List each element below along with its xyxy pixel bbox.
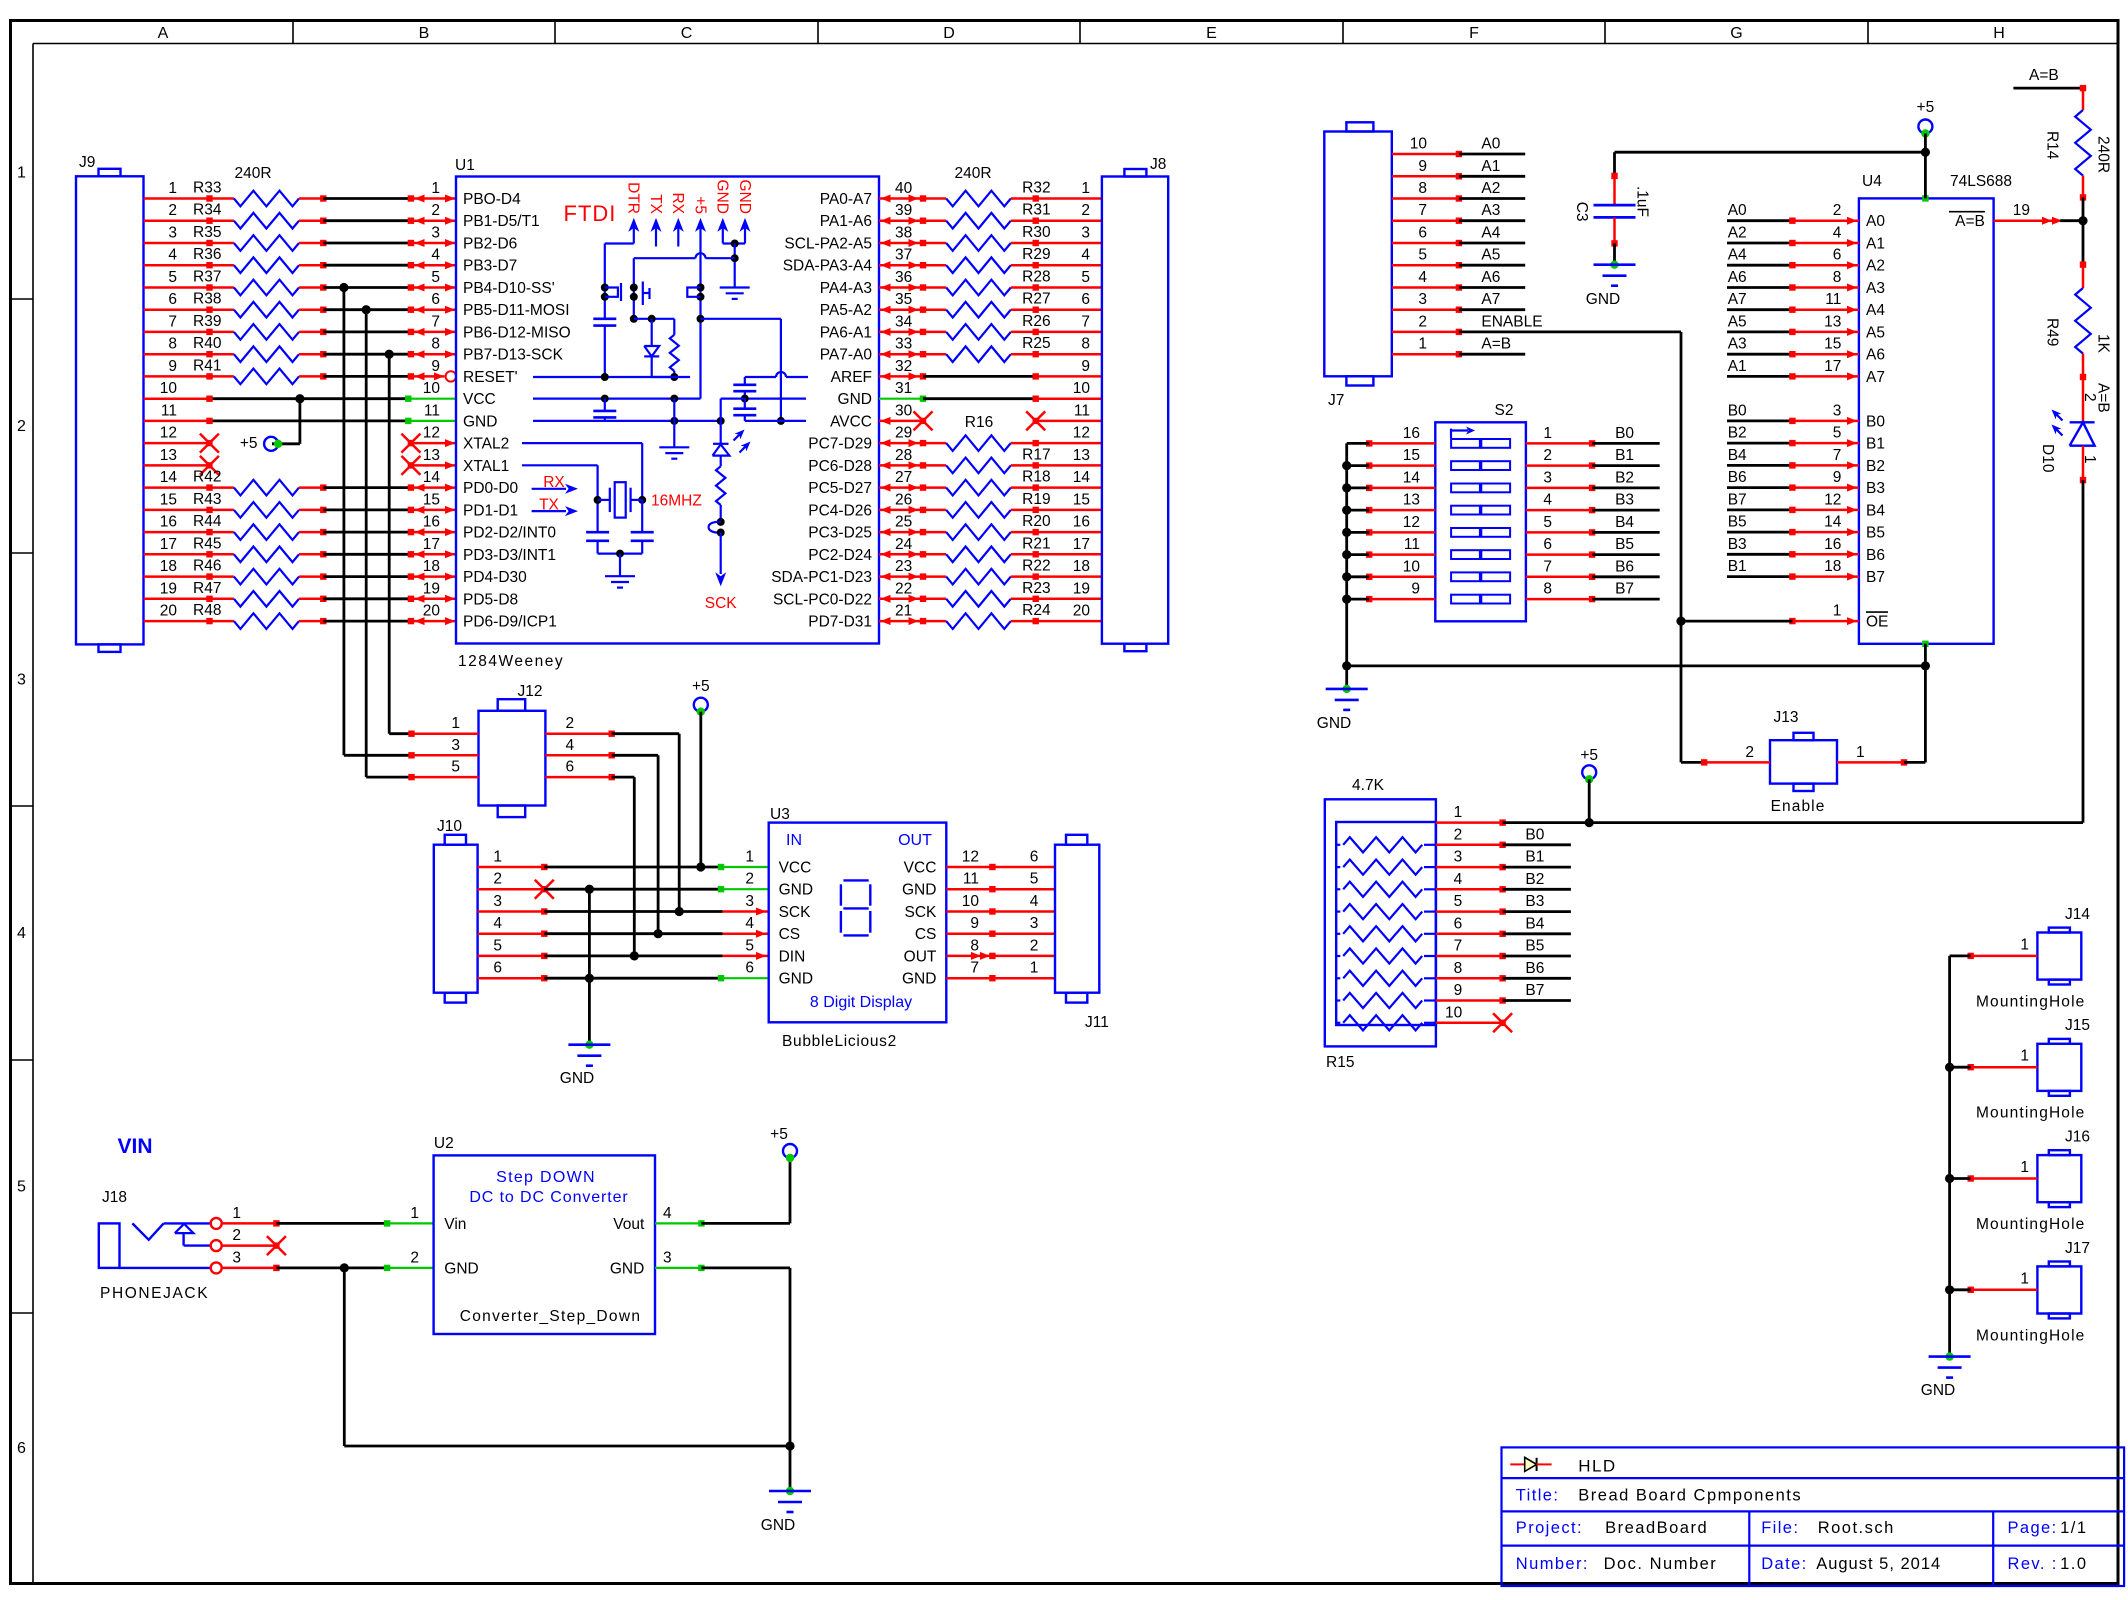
svg-text:17: 17 <box>1073 536 1090 553</box>
capacitor (AREF) <box>733 385 756 399</box>
U1 pin 22 number <box>895 580 912 597</box>
svg-text:Date:: Date: <box>1761 1555 1807 1573</box>
svg-text:R19: R19 <box>1022 491 1050 508</box>
wire <box>1727 486 1792 489</box>
svg-text:8: 8 <box>970 937 979 954</box>
wire <box>344 288 412 756</box>
R15 pin 6 number <box>1454 915 1463 932</box>
svg-text:7: 7 <box>1833 447 1842 464</box>
svg-text:11: 11 <box>963 871 979 888</box>
svg-text:RX: RX <box>669 192 686 214</box>
U4 pin 9 stub <box>1789 484 1859 492</box>
svg-text:J14: J14 <box>2065 906 2090 923</box>
svg-text:BreadBoard: BreadBoard <box>1605 1519 1708 1537</box>
svg-text:22: 22 <box>895 580 912 597</box>
arrow +5 <box>695 218 706 232</box>
svg-text:1: 1 <box>1454 804 1463 821</box>
U1 pin 6 stub <box>408 306 456 314</box>
U3 pin 11 number <box>963 871 979 888</box>
U3 pin 1 stub (green) <box>718 864 769 870</box>
svg-text:A2: A2 <box>1481 180 1500 197</box>
connector J7 <box>1324 122 1392 409</box>
svg-text:R42: R42 <box>193 469 221 486</box>
svg-text:15: 15 <box>423 491 440 508</box>
svg-text:1: 1 <box>493 849 502 866</box>
value Doc. Number <box>1604 1555 1718 1573</box>
svg-text:17: 17 <box>160 536 177 553</box>
svg-text:3: 3 <box>1543 469 1552 486</box>
no-connect X <box>200 456 219 475</box>
U1 pin 1 number <box>431 180 440 197</box>
svg-text:A=B: A=B <box>2029 67 2059 84</box>
J10 pin 1 stub <box>478 864 548 870</box>
wire +5 to U3 VCC <box>699 712 702 867</box>
wire VCC net <box>533 395 701 403</box>
J9 pin 12 number <box>160 425 177 442</box>
svg-text:U3: U3 <box>770 806 790 823</box>
svg-text:26: 26 <box>895 491 912 508</box>
J11 pin 1 number <box>1030 960 1039 977</box>
J7 pin 1 number <box>1418 336 1427 353</box>
svg-text:File:: File: <box>1761 1519 1799 1537</box>
U1 pin 20 stub <box>408 617 456 625</box>
U4 pin 17 number <box>1824 358 1841 375</box>
svg-text:6: 6 <box>1030 849 1039 866</box>
resistor R26 <box>923 313 1102 340</box>
wire <box>1503 910 1571 913</box>
wire <box>323 575 411 578</box>
value label 240R (left resistor bank) <box>234 165 271 182</box>
resistor R21 <box>923 535 1102 562</box>
svg-text:R41: R41 <box>193 357 221 374</box>
svg-text:PHONEJACK: PHONEJACK <box>100 1285 209 1302</box>
resistor R19 <box>923 491 1102 518</box>
net label B4 <box>1728 447 1747 464</box>
svg-text:Doc. Number: Doc. Number <box>1604 1555 1718 1573</box>
svg-text:DIN: DIN <box>779 948 806 965</box>
svg-text:11: 11 <box>424 402 440 419</box>
svg-text:1: 1 <box>431 180 440 197</box>
junction <box>1342 595 1351 604</box>
J13 pin 2 number <box>1745 744 1754 761</box>
wire J13.1 to U4 gnd rail <box>1904 761 1925 764</box>
resistor R41 <box>144 357 327 384</box>
U1 pin 28 stub <box>879 461 926 469</box>
svg-text:4: 4 <box>1081 247 1090 264</box>
no-connect X <box>401 456 420 475</box>
U1 pin 12 stub <box>411 439 456 447</box>
wire <box>1503 977 1571 980</box>
U1 pin 14 number <box>423 469 441 486</box>
svg-text:12: 12 <box>160 425 177 442</box>
J8 pin 7 number <box>1081 313 1090 330</box>
svg-text:August 5, 2014: August 5, 2014 <box>1816 1555 1941 1573</box>
R15 pin 6 stub <box>1436 931 1506 937</box>
svg-text:R26: R26 <box>1022 313 1050 330</box>
svg-text:J13: J13 <box>1774 709 1799 726</box>
svg-text:B0: B0 <box>1615 425 1634 442</box>
U2 pin 2 number <box>410 1249 419 1266</box>
svg-text:39: 39 <box>895 202 912 219</box>
capacitor (AVCC) <box>733 399 756 421</box>
svg-text:SCK: SCK <box>779 904 812 921</box>
J9 pin 3 number <box>168 225 177 242</box>
svg-text:6: 6 <box>745 960 754 977</box>
svg-text:18: 18 <box>423 558 440 575</box>
wire J12.4 to U3 CS <box>612 755 658 933</box>
wire <box>1459 286 1525 289</box>
svg-text:R27: R27 <box>1022 291 1050 308</box>
connector J12 <box>479 683 546 817</box>
svg-text:+5: +5 <box>691 196 708 214</box>
svg-text:7: 7 <box>1418 202 1427 219</box>
svg-text:16: 16 <box>1073 514 1090 531</box>
J10 pin 2 number <box>493 871 502 888</box>
IC U2 converter body <box>434 1135 655 1334</box>
svg-text:PD7-D31: PD7-D31 <box>808 614 872 631</box>
U1 pin 24 stub <box>879 550 926 558</box>
junction <box>362 305 371 314</box>
S2 pin 13 stub <box>1366 507 1435 513</box>
capacitor (DTR series) <box>593 319 616 377</box>
J12 pin 4 number <box>566 737 575 754</box>
J9 pin 18 number <box>160 558 177 575</box>
svg-text:R16: R16 <box>965 414 993 431</box>
svg-text:R37: R37 <box>193 269 221 286</box>
svg-text:PB1-D5/T1: PB1-D5/T1 <box>463 213 540 230</box>
svg-text:6: 6 <box>1081 291 1090 308</box>
svg-text:PB6-D12-MISO: PB6-D12-MISO <box>463 324 571 341</box>
U1 left pin labels <box>463 191 571 631</box>
svg-text:5: 5 <box>1454 893 1463 910</box>
S2 pin 11 stub <box>1366 551 1435 557</box>
wire <box>366 310 411 777</box>
svg-text:+5: +5 <box>770 1126 788 1143</box>
J10 pin 5 number <box>493 937 502 954</box>
wire DTR shaft <box>605 227 634 319</box>
J11 pin 6 number <box>1030 849 1039 866</box>
svg-text:18: 18 <box>160 558 177 575</box>
J18 pin 1 stub <box>222 1220 280 1226</box>
svg-text:23: 23 <box>895 558 912 575</box>
svg-text:PA4-A3: PA4-A3 <box>820 280 872 297</box>
svg-text:B2: B2 <box>1615 469 1634 486</box>
wire <box>144 418 409 424</box>
svg-text:B3: B3 <box>1525 893 1544 910</box>
svg-text:3: 3 <box>1030 915 1039 932</box>
wire <box>1592 575 1660 578</box>
wire <box>1459 308 1525 311</box>
ground (FTDI) <box>720 288 750 299</box>
power +5 (U2) <box>770 1126 797 1162</box>
net label B6 <box>1728 469 1747 486</box>
wire <box>1347 486 1370 489</box>
S2 element 8 <box>1451 595 1510 604</box>
J12 pin 4 stub <box>545 752 615 758</box>
U4 pin 8 number <box>1833 269 1842 286</box>
net label B3 <box>1615 492 1634 509</box>
svg-text:8: 8 <box>431 336 440 353</box>
svg-text:Bread Board Cpmponents: Bread Board Cpmponents <box>1578 1487 1802 1505</box>
U4 pin 1 number <box>1833 603 1842 620</box>
svg-text:3: 3 <box>232 1249 241 1266</box>
svg-text:A4: A4 <box>1481 225 1500 242</box>
svg-text:13: 13 <box>423 447 440 464</box>
U1 pin 36 number <box>895 269 912 286</box>
svg-text:R33: R33 <box>193 180 221 197</box>
svg-text:SCL-PA2-A5: SCL-PA2-A5 <box>784 236 872 253</box>
connector J9 <box>76 154 144 652</box>
ground (S2) <box>1317 685 1368 732</box>
svg-text:B7: B7 <box>1728 491 1747 508</box>
svg-text:5: 5 <box>17 1179 26 1196</box>
arrow TX <box>651 218 662 232</box>
wire <box>1347 509 1370 512</box>
J8 pin 19 number <box>1073 580 1090 597</box>
svg-text:SDA-PC1-D23: SDA-PC1-D23 <box>771 569 872 586</box>
transistor Q2 <box>687 284 704 301</box>
U1 pin 4 stub <box>408 261 456 269</box>
resistor R23 <box>923 580 1102 607</box>
svg-text:35: 35 <box>895 291 912 308</box>
U1 pin 25 stub <box>879 528 926 536</box>
svg-text:J12: J12 <box>518 683 543 700</box>
wire R15.1 to +5 <box>1503 818 1594 827</box>
svg-text:2: 2 <box>1543 447 1552 464</box>
svg-text:PA6-A1: PA6-A1 <box>820 324 872 341</box>
S2 pin 2 stub <box>1526 462 1595 468</box>
wire RESET net <box>533 373 690 381</box>
svg-text:MountingHole: MountingHole <box>1976 1327 2085 1344</box>
svg-text:A7: A7 <box>1728 291 1747 308</box>
svg-text:TX: TX <box>647 194 664 214</box>
svg-text:1: 1 <box>1856 744 1865 761</box>
resistor R49 1K <box>2044 261 2112 380</box>
svg-text:A6: A6 <box>1728 269 1747 286</box>
wire <box>1727 575 1792 578</box>
svg-text:1: 1 <box>1833 603 1842 620</box>
net label B2 <box>1728 425 1747 442</box>
U4 pin 18 stub <box>1789 573 1859 581</box>
wire <box>1727 353 1792 356</box>
svg-text:8: 8 <box>1543 581 1552 598</box>
svg-text:GND: GND <box>902 971 936 988</box>
J12 pin 1 number <box>451 715 460 732</box>
J7 pin 4 stub <box>1392 284 1462 290</box>
wire <box>323 597 411 600</box>
net label B5 <box>1525 938 1544 955</box>
U1 pin 39 stub <box>879 217 926 225</box>
svg-text:4: 4 <box>17 925 26 942</box>
net label A2 <box>1481 180 1500 197</box>
U1 pin 34 number <box>895 313 913 330</box>
connector J18 PHONEJACK <box>99 1189 211 1302</box>
U4 pin 9 number <box>1833 469 1842 486</box>
resistor R47 <box>144 580 327 607</box>
no-connect X (J10 pin2) <box>535 880 554 899</box>
svg-text:R15: R15 <box>1326 1054 1354 1071</box>
svg-text:GND: GND <box>779 882 813 899</box>
switch S2 body <box>1435 402 1526 621</box>
svg-text:A0: A0 <box>1728 202 1747 219</box>
svg-text:B4: B4 <box>1525 915 1544 932</box>
wire <box>1592 464 1660 467</box>
junction <box>1945 1285 1954 1294</box>
LED D10 <box>2039 377 2095 483</box>
svg-text:5: 5 <box>1543 514 1552 531</box>
resistor R22 <box>923 558 1102 585</box>
wire RX shaft <box>677 227 679 247</box>
resistor R34 <box>144 202 327 229</box>
svg-text:R38: R38 <box>193 291 221 308</box>
wire <box>1727 464 1792 467</box>
svg-text:4: 4 <box>1543 492 1552 509</box>
svg-text:3: 3 <box>17 672 26 689</box>
J11 pin 5 number <box>1030 871 1039 888</box>
arrow GND <box>717 218 728 232</box>
J8 pin 1 number <box>1081 180 1090 197</box>
R15 pin 7 number <box>1454 938 1463 955</box>
svg-text:7: 7 <box>1081 313 1090 330</box>
svg-text:R18: R18 <box>1022 469 1050 486</box>
svg-text:+5: +5 <box>1580 747 1598 764</box>
svg-text:B2: B2 <box>1525 871 1544 888</box>
svg-text:B5: B5 <box>1615 536 1634 553</box>
J8 pin 4 number <box>1081 247 1090 264</box>
J7 pin 6 stub <box>1392 240 1462 246</box>
svg-text:15: 15 <box>160 491 177 508</box>
J12 pin 3 stub <box>408 752 478 758</box>
svg-text:10: 10 <box>1403 558 1421 575</box>
R15 element 8 <box>1336 971 1436 986</box>
arrow RX <box>673 218 684 232</box>
transistor Q1 (reset FET) <box>601 283 621 301</box>
wire <box>144 396 409 402</box>
svg-text:11: 11 <box>1404 536 1420 553</box>
wire to J8 <box>1033 373 1102 379</box>
svg-text:XTAL2: XTAL2 <box>463 436 509 453</box>
U4 pin 1 (OE) stub <box>1789 617 1859 625</box>
J7 pin 10 number <box>1410 136 1428 153</box>
J9 pin 13 number <box>160 447 177 464</box>
svg-text:J10: J10 <box>437 818 462 835</box>
J8 pin 20 number <box>1073 603 1091 620</box>
R15 element 2 <box>1336 837 1436 852</box>
R15 pin 5 number <box>1454 893 1463 910</box>
J9 pin 6 number <box>168 291 177 308</box>
IC U1 1284Weeney body <box>455 157 879 670</box>
power +5 <box>240 435 282 452</box>
mounting hole J15 <box>1976 1017 2090 1122</box>
U1 pin 37 stub <box>879 261 926 269</box>
S2 pin 14 number <box>1403 469 1421 486</box>
svg-text:J15: J15 <box>2065 1017 2090 1034</box>
wire SCK row <box>544 907 722 916</box>
J9 pin 1 number <box>168 180 177 197</box>
svg-text:Vout: Vout <box>613 1216 645 1233</box>
svg-text:R45: R45 <box>193 535 221 552</box>
capacitor C3 .1uF <box>1573 173 1651 247</box>
net label B2 <box>1525 871 1544 888</box>
wire <box>1727 286 1792 289</box>
U1 pin 27 stub <box>879 484 926 492</box>
U4 pin 16 stub <box>1789 550 1859 558</box>
no-connect X <box>914 411 933 430</box>
J18 pin 2 stub <box>222 1244 277 1247</box>
svg-text:28: 28 <box>895 447 912 464</box>
wire <box>323 242 411 245</box>
no-connect X <box>401 434 420 453</box>
svg-text:3: 3 <box>663 1249 672 1266</box>
svg-text:B1: B1 <box>1615 447 1634 464</box>
J16 pin 1 number <box>2020 1159 2029 1176</box>
wire J12.2 to U3 SCK <box>612 734 680 912</box>
svg-text:13: 13 <box>160 447 177 464</box>
U1 pin 32 number <box>895 358 912 375</box>
wire ENABLE to J13.2 <box>1681 621 1704 762</box>
U1 pin 9 stub with reset bubble <box>408 371 456 381</box>
svg-text:15: 15 <box>1403 447 1420 464</box>
wire AREF net <box>745 372 808 385</box>
svg-text:9: 9 <box>431 358 440 375</box>
wire GND row6 <box>544 974 721 983</box>
U4 pin 2 stub <box>1789 217 1859 225</box>
jumper loop <box>709 518 725 537</box>
svg-text:2: 2 <box>232 1227 241 1244</box>
svg-text:8: 8 <box>168 336 177 353</box>
net flag RX arrow <box>532 474 578 494</box>
svg-text:B7: B7 <box>1866 569 1885 586</box>
S2 pin 16 stub <box>1366 440 1435 446</box>
svg-text:PD5-D8: PD5-D8 <box>463 591 518 608</box>
crystal Y1 16MHZ <box>598 482 643 517</box>
S2 pin 9 number <box>1411 581 1420 598</box>
svg-text:10: 10 <box>962 893 980 910</box>
R15 pin 7 stub <box>1436 953 1506 959</box>
net label B6 <box>1525 960 1544 977</box>
wire ENABLE <box>1459 332 1681 621</box>
U3 pin 7 number <box>970 960 979 977</box>
svg-text:PC4-D26: PC4-D26 <box>808 502 872 519</box>
U2 pin 1 stub (green) <box>384 1220 434 1226</box>
svg-text:1: 1 <box>451 715 460 732</box>
J9 pin 19 number <box>160 580 177 597</box>
net label A=B (top) <box>2013 67 2086 91</box>
svg-text:GND: GND <box>761 1517 795 1534</box>
resistor (LED) <box>716 466 725 522</box>
J9 pin 14 number <box>160 469 178 486</box>
svg-text:6: 6 <box>431 291 440 308</box>
resistor R35 <box>144 224 327 251</box>
U1 pin 11 number <box>424 402 440 419</box>
svg-text:2: 2 <box>493 871 502 888</box>
svg-text:PBO-D4: PBO-D4 <box>463 191 521 208</box>
net label B3 <box>1728 536 1747 553</box>
svg-text:1: 1 <box>2020 1159 2029 1176</box>
svg-text:B2: B2 <box>1866 458 1885 475</box>
wire <box>2082 197 2085 264</box>
J18 pin 1 number <box>232 1205 241 1222</box>
wire <box>923 375 1036 378</box>
U2 pin 1 number <box>410 1205 419 1222</box>
svg-text:B6: B6 <box>1525 960 1544 977</box>
wire <box>1727 330 1792 333</box>
svg-text:PD1-D1: PD1-D1 <box>463 502 518 519</box>
J7 pin 6 number <box>1418 225 1427 242</box>
mounting hole J14 <box>1976 906 2090 1011</box>
J8 pin 17 number <box>1073 536 1090 553</box>
resistor R32 <box>923 180 1102 207</box>
